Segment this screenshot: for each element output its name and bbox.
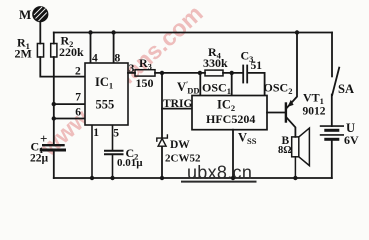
switch SA [332, 68, 339, 95]
wire battery to bottom rail [331, 141, 333, 178]
svg-text:51: 51 [251, 60, 263, 72]
wire top rail [54, 32, 332, 34]
svg-text:SA: SA [338, 82, 354, 96]
wire pin7 [54, 103, 85, 105]
wire VDD pin drop [199, 73, 201, 96]
wire pin3 to R3 [128, 72, 135, 74]
wire VSS drop [232, 130, 234, 178]
wire pin1 drop [91, 125, 93, 178]
wire microphone stem [39, 22, 41, 44]
wire R3 to R4 [155, 72, 205, 74]
svg-text:TRIG: TRIG [163, 98, 192, 110]
wire IC2 output to base [267, 112, 285, 114]
svg-text:9012: 9012 [303, 106, 326, 118]
svg-text:6: 6 [75, 107, 81, 119]
resistor R4 [205, 70, 223, 76]
wire R2 down to C1 [53, 57, 55, 144]
wire switch to battery [331, 95, 333, 127]
svg-text:220k: 220k [59, 45, 84, 59]
svg-text:0.01µ: 0.01µ [117, 157, 143, 169]
wire bottom rail [54, 177, 332, 179]
svg-text:150: 150 [136, 76, 154, 90]
svg-text:7: 7 [75, 92, 81, 104]
watermark www.elecfans.com diagonal [35, 0, 208, 161]
svg-text:DW: DW [170, 139, 190, 151]
svg-text:OSC1: OSC1 [202, 81, 231, 97]
op IC1 555 box [85, 63, 128, 125]
wire R2 top [53, 33, 55, 44]
node dots R3 wire [160, 71, 164, 75]
wire R4 to C3 [223, 72, 242, 74]
zener diode DW [157, 135, 168, 146]
svg-text:+: + [40, 131, 47, 146]
node dots top rail [88, 30, 92, 34]
svg-text:555: 555 [96, 98, 115, 112]
resistor R1 [37, 44, 43, 58]
svg-text:1: 1 [93, 127, 99, 139]
op IC2 HFC5204 box [192, 96, 267, 130]
svg-text:8: 8 [115, 53, 121, 65]
node dots R2 column [52, 102, 56, 106]
svg-text:M: M [19, 7, 31, 22]
node dots bottom rail [90, 176, 94, 180]
svg-text:8Ω: 8Ω [278, 145, 292, 156]
svg-text:2M: 2M [15, 47, 32, 61]
svg-text:22µ: 22µ [30, 153, 49, 165]
wire pin8 drop [113, 33, 115, 64]
microphone M [33, 7, 48, 22]
capacitor C1 [41, 145, 64, 178]
wire TRIG DW column [161, 73, 163, 138]
resistor R2 [51, 44, 57, 58]
wire C3 to OSC2 drop [248, 73, 265, 96]
wire TRIG branch [162, 108, 192, 110]
svg-text:ubx8.cn: ubx8.cn [187, 162, 252, 182]
svg-text:330k: 330k [203, 56, 228, 70]
transistor emitter arrow (PNP) [288, 100, 294, 107]
wire pin6 [54, 118, 85, 120]
resistor R3 [135, 70, 155, 76]
svg-text:5: 5 [113, 128, 119, 140]
svg-text:3: 3 [129, 63, 135, 75]
svg-text:4: 4 [92, 53, 98, 65]
battery U [321, 126, 344, 139]
wire R1 to pin2 [40, 57, 85, 77]
capacitor C3 [243, 66, 247, 83]
svg-text:OSC2: OSC2 [264, 81, 293, 97]
svg-text:6V: 6V [344, 133, 359, 147]
wire pin5 drop and capacitor C2 [104, 125, 124, 178]
wire OSC1 pin drop [231, 73, 233, 96]
wire right rail upper (to switch) [331, 33, 333, 77]
speaker B [292, 128, 310, 178]
svg-text:HFC5204: HFC5204 [206, 112, 255, 126]
wire pin4 drop [90, 33, 92, 64]
svg-text:2: 2 [75, 66, 81, 78]
transistor Q VT1 9012 [286, 33, 297, 137]
